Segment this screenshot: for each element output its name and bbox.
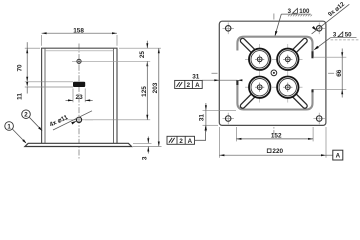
svg-text:125: 125	[141, 86, 148, 97]
dimension 3 flange thickness	[133, 137, 162, 161]
wire top step line	[45, 50, 114, 52]
svg-text:23: 23	[76, 94, 84, 101]
slot SE	[291, 92, 309, 110]
hole upper small	[72, 56, 150, 67]
dimension 70 left	[17, 42, 40, 82]
svg-text:2: 2	[24, 112, 28, 119]
dimension 31 upper with fcf	[175, 73, 243, 89]
fcf parallel lower	[167, 126, 207, 145]
center hole	[271, 70, 277, 76]
boss top rail	[237, 37, 312, 59]
boss edge tick left bottom	[236, 80, 238, 85]
svg-text:2: 2	[179, 138, 183, 145]
slot NW	[239, 37, 257, 55]
dimension 25 right	[119, 41, 161, 67]
circle column centerlines	[259, 44, 261, 103]
svg-text:A: A	[195, 82, 200, 89]
wire inner wall right	[113, 48, 115, 143]
svg-text:A: A	[336, 153, 341, 160]
svg-text:31: 31	[192, 73, 200, 80]
dimension 11 left	[17, 82, 74, 100]
boss edge tick right top	[311, 51, 313, 58]
svg-text:3: 3	[142, 156, 149, 160]
dimension 66 right	[312, 49, 346, 98]
boss bottom rail	[237, 80, 312, 109]
boss circle BL	[249, 77, 270, 98]
dimension 23	[66, 89, 93, 103]
svg-text:31: 31	[198, 114, 205, 122]
boss circle TL	[249, 49, 270, 70]
dimension 125 right	[85, 61, 150, 120]
dimension 158 top	[42, 27, 117, 46]
balloon 1	[5, 122, 27, 144]
note 9x dia12 diagonal	[312, 1, 350, 34]
centerline vertical	[273, 14, 275, 135]
corner hole TL	[223, 23, 235, 35]
note 3x 50 right	[313, 32, 360, 52]
corner hole BR	[313, 113, 325, 125]
corner hole BL	[223, 113, 235, 125]
svg-text:11: 11	[17, 93, 24, 100]
svg-text:158: 158	[73, 27, 84, 34]
base flange	[25, 143, 132, 146]
label 4x dia11	[48, 111, 92, 130]
centerline horizontal	[212, 72, 338, 74]
plate outline	[219, 21, 326, 125]
note 3x 100 top	[274, 8, 312, 37]
dimension 152 bottom	[236, 127, 313, 141]
boss circle BR	[277, 77, 298, 98]
svg-text:152: 152	[271, 133, 282, 140]
slot SW	[239, 92, 257, 110]
svg-text:1: 1	[7, 123, 11, 130]
slot NE	[291, 37, 309, 55]
boss circle TR	[277, 49, 298, 70]
svg-text:220: 220	[272, 148, 283, 155]
svg-text:66: 66	[336, 69, 343, 77]
svg-text:70: 70	[17, 64, 24, 72]
svg-text:2: 2	[187, 82, 191, 89]
dimension 203 right	[152, 48, 160, 146]
corner hole TR	[313, 23, 325, 35]
centerline vertical body	[78, 44, 80, 161]
svg-text:203: 203	[152, 82, 159, 93]
hole lower 4x dia11	[66, 117, 93, 122]
boss edge tick right bottom	[311, 89, 313, 92]
datum A	[326, 150, 343, 160]
svg-text:25: 25	[139, 51, 146, 59]
svg-text:A: A	[188, 138, 193, 145]
dimension 31 lower left	[198, 103, 236, 132]
balloon 2	[22, 110, 43, 131]
body outline	[42, 48, 117, 143]
wire inner wall left	[44, 48, 46, 143]
dimension square 220 bottom	[219, 127, 326, 158]
slot section (filled)	[73, 82, 85, 87]
